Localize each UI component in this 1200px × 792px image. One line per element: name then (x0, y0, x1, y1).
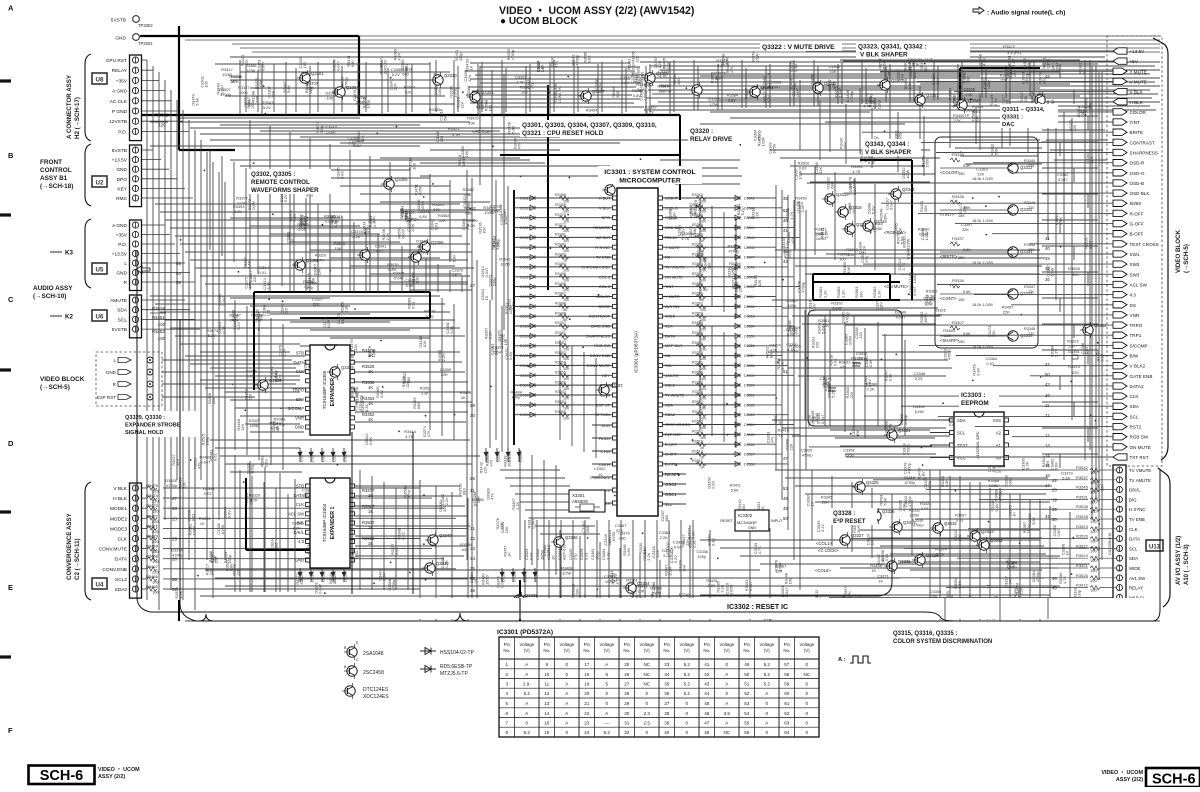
part label R3408 (817, 322, 826, 333)
part label C3366 (1080, 343, 1089, 354)
svg-text:22K: 22K (962, 227, 969, 232)
svg-text:10K: 10K (464, 150, 469, 157)
wire (553, 60, 555, 112)
svg-text:K2: K2 (65, 314, 73, 321)
part label R3526 (401, 376, 410, 387)
junction (597, 589, 599, 591)
part label C3366 (302, 488, 313, 498)
part label C3364 (499, 213, 508, 225)
junction (337, 464, 339, 466)
part label R3360 (340, 301, 349, 313)
svg-text:ASSY (2/2): ASSY (2/2) (98, 774, 125, 780)
svg-text:46: 46 (704, 711, 710, 716)
part label C3348 (914, 371, 925, 381)
part label C3389 (629, 586, 638, 597)
svg-text:D3383: D3383 (519, 451, 523, 462)
svg-text:10K: 10K (830, 69, 837, 74)
svg-text:SCL: SCL (957, 430, 966, 435)
svg-text:0.047: 0.047 (326, 130, 336, 135)
svg-text:10/50: 10/50 (925, 157, 930, 168)
svg-text:22K: 22K (212, 555, 217, 562)
svg-text:27: 27 (624, 682, 630, 687)
part label R3581 (879, 494, 888, 505)
svg-text:29: 29 (624, 701, 630, 706)
part label R3484 (404, 429, 416, 439)
svg-text:22K: 22K (332, 219, 339, 224)
svg-text:Y MUTE: Y MUTE (1130, 69, 1147, 74)
label A CONNECTOR ASSY H2 (SCH-17) (66, 74, 81, 139)
wire to AV I/O (820, 469, 1058, 471)
svg-text:3.3K: 3.3K (887, 373, 892, 381)
part label C3393 (766, 432, 775, 443)
svg-text:53: 53 (783, 486, 788, 491)
svg-text:1K: 1K (507, 552, 512, 557)
wire (652, 93, 1158, 95)
svg-text:100p: 100p (788, 303, 797, 308)
svg-text:D3393: D3393 (535, 571, 539, 582)
wire (330, 337, 430, 339)
wire (531, 455, 533, 565)
wire (555, 465, 557, 575)
svg-text:1K: 1K (368, 417, 373, 422)
wire (699, 320, 701, 430)
junction (998, 196, 1000, 198)
svg-text:4.7K: 4.7K (397, 52, 402, 60)
svg-text:+13.5V: +13.5V (112, 158, 128, 164)
part label D3398 (866, 203, 875, 214)
part label R3372 (633, 72, 642, 83)
wire (1047, 100, 1049, 240)
part label R3429 (467, 116, 478, 126)
svg-text:15K: 15K (958, 172, 965, 176)
junction (253, 188, 255, 190)
svg-text:16: 16 (544, 730, 550, 735)
video block arrow SW2 (863, 261, 1140, 267)
wire (1046, 139, 1107, 141)
part label R3357 (390, 544, 399, 555)
transistor Q (689, 82, 702, 98)
label plate (497, 628, 559, 638)
svg-text:C2 (→SCH-11): C2 (→SCH-11) (74, 538, 81, 580)
svg-text:5.6K: 5.6K (731, 488, 739, 493)
part label D3325 (313, 538, 324, 548)
svg-text:22K: 22K (822, 323, 829, 328)
part label D3350 (298, 217, 307, 229)
svg-text:2.2K: 2.2K (720, 584, 725, 592)
svg-text:0: 0 (766, 701, 769, 706)
svg-text:10K: 10K (846, 266, 851, 273)
svg-text:0: 0 (526, 721, 529, 726)
part label R3513 (270, 420, 281, 430)
wire (871, 108, 873, 168)
AV I/O pin H SYNC (1052, 504, 1146, 514)
wire stub drop (1087, 272, 1089, 286)
svg-text:IC3302: IC3302 (738, 513, 753, 518)
diode D3393 (533, 568, 539, 582)
wire stub drop (1087, 116, 1089, 130)
svg-text:D3352: D3352 (744, 305, 755, 309)
wire (959, 476, 961, 621)
part label C3373 (1007, 505, 1016, 516)
wire (870, 537, 1042, 539)
svg-text:IC3301 (PD5372A): IC3301 (PD5372A) (497, 629, 553, 636)
wire (815, 501, 1050, 503)
svg-text:+5V: +5V (1130, 59, 1139, 64)
part label C3327 (1000, 95, 1009, 106)
svg-text:D3340: D3340 (520, 384, 531, 388)
svg-text:47K: 47K (840, 364, 847, 369)
wire (711, 326, 713, 436)
svg-text:Q3309: Q3309 (656, 71, 669, 76)
IC3301 right pin TEST CROSS (658, 420, 794, 430)
part label R3534 (609, 570, 618, 582)
svg-text:E2P RST: E2P RST (97, 395, 116, 400)
svg-text:DS: DS (1130, 303, 1136, 308)
svg-text:(V): (V) (644, 648, 650, 653)
svg-text:0: 0 (646, 691, 649, 696)
label DAC (front) (1002, 107, 1045, 128)
wire stub right gap (1042, 349, 1098, 351)
wire (572, 520, 574, 598)
part label R3401 (454, 50, 463, 61)
svg-text:49: 49 (783, 218, 788, 223)
svg-text:D3334: D3334 (520, 325, 531, 329)
video block dashed outline (right) (1107, 36, 1162, 466)
wire (920, 83, 1070, 85)
svg-text:220: 220 (630, 63, 635, 70)
svg-text:A12CR16L IOPC: A12CR16L IOPC (976, 431, 980, 459)
svg-text:5.2V: 5.2V (820, 524, 825, 532)
wire (782, 427, 946, 429)
part label R3365 (789, 343, 800, 353)
wire (840, 59, 1080, 61)
junction (972, 197, 974, 199)
svg-text:(V): (V) (684, 648, 690, 653)
svg-text:4: 4 (506, 691, 509, 696)
wire from U6 pin (142, 309, 191, 311)
wire (894, 190, 896, 275)
svg-text:5.2V: 5.2V (263, 459, 268, 467)
part label R3548 (720, 54, 729, 65)
svg-text:0.047: 0.047 (318, 584, 323, 594)
wire vertical bundle left (224, 182, 226, 560)
wire stub drop (1059, 220, 1061, 234)
svg-text:100: 100 (158, 336, 166, 341)
svg-text:MICROCOMPUTER: MICROCOMPUTER (619, 178, 681, 185)
part label R3531 (764, 347, 773, 358)
part label C3389 (299, 215, 308, 226)
wire (205, 283, 468, 285)
junction (739, 144, 741, 146)
wire (260, 130, 500, 132)
svg-text:0.8V: 0.8V (302, 221, 307, 229)
transistor Q (408, 249, 421, 265)
wire (355, 495, 462, 497)
svg-text:5.2: 5.2 (684, 672, 691, 677)
svg-text:4.7K: 4.7K (901, 262, 906, 270)
junction (1090, 414, 1092, 416)
wire (700, 75, 980, 77)
svg-text:15K: 15K (958, 340, 965, 344)
wire (200, 379, 300, 381)
svg-text:0.047: 0.047 (401, 229, 406, 239)
svg-text:18: 18 (584, 672, 590, 677)
svg-text:V BLK SHAPER: V BLK SHAPER (860, 52, 908, 59)
svg-text:0: 0 (566, 672, 569, 677)
part label C3398 (186, 510, 195, 521)
part label R3533 (458, 483, 467, 494)
wire (621, 60, 623, 115)
part label R3361 (309, 403, 318, 414)
svg-text:(V): (V) (524, 648, 530, 653)
part label R3450 (795, 196, 807, 206)
part label R3497 (733, 601, 742, 612)
wire (467, 498, 469, 621)
svg-text:Pin: Pin (624, 642, 631, 647)
svg-text:10K: 10K (965, 76, 970, 83)
wire from U4 pin (142, 568, 148, 570)
part label C3342 (411, 272, 420, 283)
wire (449, 270, 451, 292)
svg-text:100p: 100p (492, 278, 497, 287)
video block arrow B-OFF (992, 231, 1143, 237)
part label R3389 (393, 49, 402, 60)
part label D3337 (402, 372, 411, 383)
svg-text:R3538: R3538 (1076, 504, 1089, 509)
svg-text:3.3K: 3.3K (273, 370, 278, 378)
transistor Q3322 (810, 80, 837, 96)
svg-text:57: 57 (784, 662, 790, 667)
part label D3372 (288, 210, 297, 221)
svg-text:<ON MUTE>: <ON MUTE> (884, 284, 909, 289)
legend diode RD5.6ESB-TP (420, 664, 473, 677)
wire from U5 pin (142, 234, 171, 236)
wire stub right gap (1042, 63, 1098, 65)
transistor Q3323 (877, 77, 904, 93)
junction (922, 165, 924, 167)
part label D3305 (500, 522, 509, 533)
part label R3594 (199, 516, 211, 526)
part label R3511 (401, 67, 412, 77)
svg-text:4.7K: 4.7K (902, 503, 907, 511)
part label C3302 (200, 76, 209, 87)
svg-text:TP3302: TP3302 (138, 23, 153, 28)
svg-text:12VSTB: 12VSTB (109, 119, 127, 125)
part label R3583 (304, 82, 313, 93)
svg-text:22K: 22K (393, 83, 398, 90)
junction (322, 224, 324, 226)
wire thick net (547, 85, 549, 155)
video block pin R (113, 381, 153, 387)
svg-text:U8: U8 (96, 77, 104, 84)
svg-text:22K: 22K (1003, 310, 1010, 315)
part label D3347 (229, 313, 240, 323)
part label C3314 (897, 258, 906, 270)
wire (1063, 112, 1065, 360)
wire (180, 343, 300, 345)
part label C3398 (845, 90, 854, 101)
svg-text:47K: 47K (729, 66, 734, 73)
part label R3359 (645, 105, 656, 115)
svg-text:OSD-B: OSD-B (1130, 181, 1145, 186)
part label R3333 (1072, 587, 1081, 598)
part label R3431 (839, 359, 850, 369)
wire (233, 162, 235, 262)
part label R3478 (896, 233, 905, 244)
IC3301 left pin CVIN (592, 449, 617, 454)
svg-text:D/K/L: D/K/L (1129, 488, 1141, 493)
wire (357, 64, 359, 115)
part label R3325 (716, 58, 727, 68)
part label D3318 (868, 221, 877, 232)
svg-text:D3377: D3377 (333, 451, 337, 462)
svg-text:No.: No. (583, 648, 590, 653)
part label C3365 (292, 521, 303, 531)
wire stub drop (1059, 64, 1061, 78)
part label R3517 (687, 528, 696, 539)
wire (735, 218, 737, 318)
junction (409, 572, 411, 574)
svg-text:RST2: RST2 (1130, 425, 1142, 430)
part label D3343 (433, 84, 442, 95)
junction (616, 364, 618, 366)
part label D3341 (389, 79, 398, 90)
svg-text:TXT RST: TXT RST (1130, 455, 1149, 460)
part label R3323 (1019, 91, 1028, 102)
svg-text:4700p: 4700p (907, 496, 912, 507)
svg-text:5.2V: 5.2V (383, 59, 388, 67)
svg-text:1/2W: 1/2W (246, 68, 255, 73)
label Q3343 Q3344 V BLK SHAPER (865, 141, 912, 156)
wire (353, 222, 355, 292)
part label C3373 (336, 313, 345, 324)
junction (985, 234, 987, 236)
part label C3374 (422, 425, 431, 437)
legend diode HSS104-02-TP (420, 648, 475, 657)
part label R3338 (502, 455, 511, 466)
part label D3398 (203, 486, 214, 496)
wire thick GND drop (358, 36, 360, 115)
svg-text:100: 100 (158, 322, 166, 327)
part label R3591 (420, 386, 431, 396)
wire (261, 64, 263, 115)
IC IC3305 expander 2 (287, 345, 354, 435)
svg-text:5.6K: 5.6K (963, 206, 971, 210)
label plate (1000, 104, 1058, 128)
wire (437, 264, 439, 292)
IC3301 right pin Y MUTE (658, 242, 776, 252)
label IC3301 system control microcomputer (front) (604, 169, 695, 185)
part label R3526 (478, 222, 487, 233)
part label R3467 (775, 563, 786, 573)
label Q3302 Q3305 remote control waveforms shaper (251, 171, 319, 194)
svg-text:BRITE: BRITE (1130, 130, 1144, 135)
board outline notch 2 (452, 613, 468, 621)
svg-text:10/50: 10/50 (1045, 58, 1050, 69)
svg-text:IC3302 : RESET IC: IC3302 : RESET IC (727, 604, 788, 611)
svg-text:D3363: D3363 (333, 571, 337, 582)
label K3 (50, 250, 73, 257)
svg-text:36: 36 (1045, 277, 1050, 282)
part label C3393 (1013, 105, 1024, 115)
svg-text:2.2K: 2.2K (444, 497, 449, 505)
svg-text:100: 100 (859, 291, 864, 298)
svg-text:R3526: R3526 (1076, 534, 1089, 539)
diode D3378 (342, 448, 348, 462)
svg-text:10/50: 10/50 (500, 262, 511, 267)
svg-text:220: 220 (815, 341, 820, 348)
part label D3317 (662, 548, 673, 558)
svg-text:Pin: Pin (544, 642, 551, 647)
wire (861, 60, 863, 104)
svg-text:22K: 22K (405, 90, 412, 95)
wire (700, 123, 905, 125)
part label D3349 (326, 343, 337, 353)
part label D3350 (244, 388, 253, 400)
wire top bus (230, 56, 1105, 58)
wire (489, 300, 491, 448)
wire (772, 419, 948, 421)
wire stub drop (1059, 376, 1061, 390)
wire (245, 168, 247, 268)
svg-text:D3351: D3351 (1068, 349, 1081, 354)
wire (768, 351, 950, 353)
wire (658, 101, 1160, 103)
wire (355, 525, 470, 527)
capacitor IC3301D (546, 544, 556, 560)
wire to AV I/O (915, 518, 1058, 520)
svg-text:3.3K: 3.3K (944, 479, 949, 487)
part label C3383 (286, 232, 295, 243)
part label C3379 (693, 200, 702, 211)
video block arrow SHARPNESS (936, 149, 1158, 155)
part label C3341 (375, 243, 386, 253)
svg-text:13: 13 (1045, 443, 1050, 448)
part label C3331 (791, 85, 800, 96)
resistor R3468 100 (146, 554, 178, 565)
svg-text:D3364: D3364 (744, 423, 755, 427)
svg-text:17: 17 (584, 662, 590, 667)
svg-text:11: 11 (470, 488, 475, 493)
part label R3544 (432, 202, 444, 212)
wire (380, 157, 520, 159)
svg-text:10K: 10K (468, 121, 475, 126)
svg-text:0: 0 (646, 730, 649, 735)
wire (258, 312, 260, 460)
wire (377, 234, 379, 292)
part label R3480 (216, 82, 225, 94)
svg-text:SDA: SDA (957, 418, 966, 423)
svg-text:5.6K: 5.6K (195, 97, 200, 105)
part label R3368 (988, 478, 1000, 488)
svg-text:D3332: D3332 (520, 305, 531, 309)
junction (908, 293, 910, 295)
svg-text:1/2W: 1/2W (508, 305, 513, 314)
wire (250, 431, 304, 433)
IC3301 left pin VSS (592, 501, 617, 506)
wire (270, 313, 370, 315)
part label C3369 (899, 414, 908, 425)
svg-text:43: 43 (783, 259, 788, 264)
wire (1029, 62, 1031, 96)
svg-text:2.3: 2.3 (644, 711, 651, 716)
svg-text:1K: 1K (700, 466, 705, 470)
svg-text:No.: No. (703, 648, 710, 653)
wire (155, 303, 445, 305)
wire (476, 106, 644, 108)
svg-text:TRP1: TRP1 (1130, 333, 1142, 338)
wire (355, 421, 466, 423)
